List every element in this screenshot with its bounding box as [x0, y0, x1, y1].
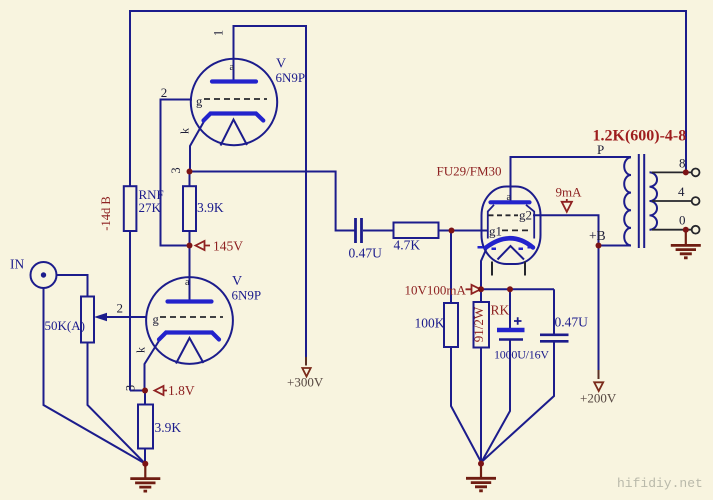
svg-text:g2: g2	[519, 208, 532, 223]
svg-text:g: g	[196, 95, 203, 109]
svg-text:g1: g1	[489, 224, 502, 239]
svg-text:50K(A): 50K(A)	[45, 318, 85, 333]
svg-text:10V100mA: 10V100mA	[405, 283, 467, 298]
svg-text:g: g	[153, 313, 160, 327]
svg-text:6N9P: 6N9P	[232, 288, 262, 303]
svg-text:1.2K(600)-4-8: 1.2K(600)-4-8	[593, 128, 687, 145]
svg-text:+300V: +300V	[287, 375, 324, 390]
svg-text:+200V: +200V	[580, 391, 617, 406]
svg-text:0.47U: 0.47U	[555, 315, 589, 330]
svg-text:1: 1	[212, 30, 226, 36]
svg-text:FU29/FM30: FU29/FM30	[437, 164, 502, 179]
svg-text:3.9K: 3.9K	[197, 200, 224, 215]
svg-text:0: 0	[679, 213, 686, 228]
svg-text:3: 3	[169, 167, 183, 173]
svg-text:27K: 27K	[139, 200, 162, 215]
svg-text:9mA: 9mA	[556, 185, 583, 200]
svg-text:4: 4	[678, 184, 685, 199]
svg-text:6N9P: 6N9P	[276, 70, 306, 85]
svg-text:0.47U: 0.47U	[349, 246, 383, 261]
svg-text:145V: 145V	[213, 239, 243, 254]
svg-text:3.9K: 3.9K	[155, 420, 182, 435]
svg-text:4.7K: 4.7K	[394, 238, 421, 253]
svg-text:k: k	[178, 128, 192, 134]
svg-text:a: a	[507, 192, 512, 203]
svg-text:91/2W: 91/2W	[471, 306, 486, 342]
svg-text:1.8V: 1.8V	[168, 383, 195, 398]
svg-text:100K: 100K	[415, 316, 445, 331]
svg-text:8: 8	[679, 156, 686, 171]
svg-text:RK: RK	[491, 303, 510, 318]
svg-text:1000U/16V: 1000U/16V	[494, 348, 549, 362]
svg-text:-14d B: -14d B	[99, 196, 113, 230]
svg-text:+B: +B	[589, 228, 606, 243]
svg-text:hifidiy.net: hifidiy.net	[617, 476, 703, 491]
svg-text:2: 2	[161, 85, 168, 100]
svg-text:IN: IN	[10, 257, 24, 272]
svg-text:3: 3	[124, 385, 138, 391]
svg-text:k: k	[134, 347, 148, 353]
svg-text:2: 2	[117, 301, 124, 316]
svg-text:a: a	[185, 277, 190, 288]
svg-text:a: a	[230, 62, 235, 73]
